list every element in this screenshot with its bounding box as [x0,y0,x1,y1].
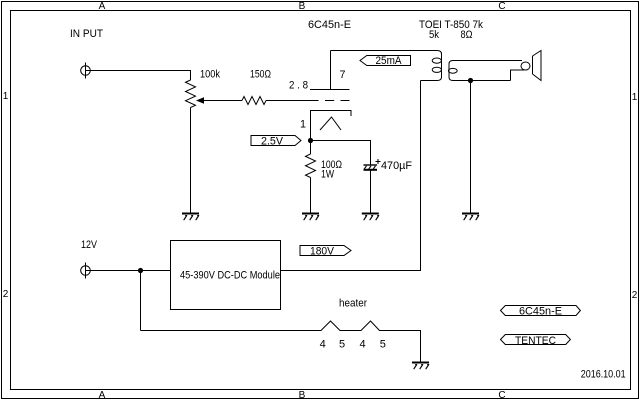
plus sign of capacitor [376,159,381,164]
svg-text:B: B [299,390,306,400]
svg-text:12V: 12V [81,239,98,251]
svg-text:5: 5 [380,339,386,351]
12V connector jack [81,263,91,279]
transformer T1 primary winding [421,51,442,81]
svg-text:TENTEC: TENTEC [515,335,556,347]
wire 100Ω to ground [310,178,312,214]
svg-text:A: A [99,390,106,400]
ground under transformer secondary [462,214,479,220]
svg-text:heater: heater [339,298,367,310]
wire speaker return [511,70,525,81]
svg-text:1: 1 [632,92,638,103]
svg-text:2.5V: 2.5V [261,136,284,148]
ground heater end [412,363,429,369]
svg-text:C: C [498,390,505,400]
current flag 25mA [360,55,411,67]
wire secondary top to speaker [453,60,522,62]
svg-text:4: 4 [359,339,365,351]
wire plate to transformer primary [331,50,438,52]
svg-text:150Ω: 150Ω [250,69,271,81]
svg-text:2016.10.01: 2016.10.01 [581,369,626,381]
name flag TENTEC [501,335,571,348]
ground under capacitor [362,214,379,220]
name flag 6C45n-E [501,306,581,318]
triode V1 grid (dashed) [325,100,350,102]
transformer T1 secondary winding [448,61,510,81]
junction node cathode [308,138,313,143]
svg-text:6C45n-E: 6C45n-E [519,306,562,318]
svg-text:2 . 8: 2 . 8 [289,80,308,92]
svg-text:5: 5 [339,339,345,351]
svg-text:180V: 180V [310,246,335,258]
wire input to potentiometer top [86,71,191,81]
svg-text:4: 4 [320,339,326,351]
svg-text:1: 1 [300,119,306,131]
ground under 100Ω [302,214,319,220]
potentiometer wiper arrow [196,97,242,103]
potentiometer VR1 100k [186,80,196,107]
svg-text:B: B [299,1,306,12]
capacitor C1 470µF (polarized) [364,165,378,170]
wire pot bottom to ground [190,108,192,214]
triode V1 cathode [311,111,352,141]
svg-text:2: 2 [3,289,9,300]
svg-text:IN PUT: IN PUT [70,28,103,40]
svg-text:C: C [498,1,505,12]
DC-DC module U1 [171,241,281,310]
triode V1 plate [310,51,350,90]
svg-text:8Ω: 8Ω [461,29,473,41]
svg-text:25mA: 25mA [376,55,403,67]
svg-text:470µF: 470µF [381,160,412,172]
wire 12V to module [86,270,171,272]
junction node secondary-ground [468,78,473,83]
voltage flag 2.5V [251,136,301,148]
svg-text:100k: 100k [200,69,220,81]
svg-text:1: 1 [3,91,9,102]
wire secondary to ground [470,81,472,214]
wire cathode node to capacitor [311,141,371,166]
junction node 12V-heater [138,268,143,273]
resistor R1 150Ω [242,97,266,105]
wire cathode node to resistor [310,141,312,155]
wire capacitor to ground [370,170,372,213]
wire 150Ω to grid [266,100,319,102]
wire B+ module to transformer [281,81,421,271]
voltage flag 180V [300,246,351,258]
ground under potentiometer [182,214,199,220]
input connector jack [81,63,91,79]
heater wiring with filament humps pins 4 5 4 5 [141,321,421,362]
svg-text:1W: 1W [321,169,334,181]
svg-text:A: A [99,1,106,12]
wire 12V node to heater line [140,271,142,331]
svg-text:45-390V DC-DC Module: 45-390V DC-DC Module [180,270,280,282]
svg-text:5k: 5k [429,29,439,41]
svg-text:6C45n-E: 6C45n-E [308,19,351,31]
svg-text:2: 2 [632,290,638,301]
speaker SP1 [521,51,541,81]
svg-text:7: 7 [340,69,346,81]
resistor R2 100Ω 1W [306,154,316,178]
triode V1 heater filament caret [320,117,341,130]
